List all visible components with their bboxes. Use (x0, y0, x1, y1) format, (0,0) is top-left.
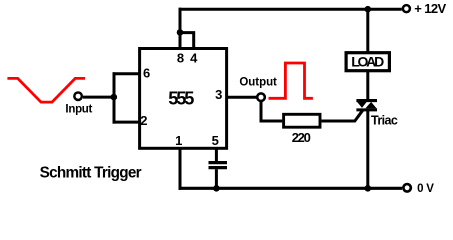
svg-text:5: 5 (212, 133, 219, 148)
triac right triangle (pointing up) (365, 102, 376, 109)
node pin8/pin4 junction (177, 29, 184, 36)
capacitor C1 top plate (209, 161, 228, 164)
node capacitor / rail junction (213, 185, 220, 192)
terminal Output circle (257, 93, 265, 101)
triac bottom bar (MT1) (356, 108, 377, 111)
node input junction (111, 94, 118, 101)
svg-text:6: 6 (143, 65, 150, 80)
wire +12V top rail (179, 8, 402, 11)
svg-text:2: 2 (140, 113, 147, 128)
svg-text:Input: Input (65, 104, 92, 116)
svg-text:555: 555 (168, 88, 194, 108)
wire resistor to triac gate (322, 110, 363, 121)
svg-text:Output: Output (239, 76, 277, 88)
node top rail / load branch junction (365, 6, 372, 13)
terminal 0V circle (403, 184, 411, 192)
wire rail to LOAD (366, 9, 369, 53)
wire pin 8 riser to +12V rail (179, 8, 182, 49)
wire pin 5 drop to capacitor (215, 148, 218, 161)
wire pin6-pin2 connector vertical (113, 72, 116, 123)
timer IC U1 555 box (140, 49, 227, 149)
wire pin 6 stub (113, 72, 140, 75)
triac left triangle (pointing down) (357, 102, 366, 108)
svg-text:8: 8 (177, 50, 184, 65)
svg-text:Triac: Triac (371, 113, 398, 127)
svg-text:3: 3 (215, 87, 222, 102)
input waveform (red trapezoid) (7, 78, 85, 102)
wire pin 2 stub (113, 121, 140, 124)
resistor R1 220 box (284, 114, 320, 127)
triac Q1 top bar (MT2) (356, 99, 377, 102)
wire output drop to resistor (261, 102, 282, 122)
svg-text:LOAD: LOAD (351, 54, 384, 70)
wire 0V bottom rail (179, 187, 403, 190)
load box (346, 53, 389, 71)
node triac / rail junction (365, 185, 372, 192)
capacitor C1 bottom plate (209, 166, 228, 169)
wire LOAD to triac (366, 72, 369, 102)
svg-text:Schmitt Trigger: Schmitt Trigger (40, 164, 142, 181)
wire triac to 0V rail (366, 110, 369, 188)
terminal +12V circle (403, 5, 410, 12)
wire pin 4 loop (180, 33, 194, 49)
svg-text:4: 4 (190, 50, 198, 65)
output pulse waveform (red) (269, 63, 313, 98)
wire pin 3 stub (228, 96, 257, 99)
svg-text:1: 1 (175, 133, 182, 148)
wire capacitor to 0V rail (215, 169, 218, 188)
svg-text:+ 12V: + 12V (414, 1, 446, 16)
svg-text:220: 220 (292, 130, 311, 145)
wire pin 1 drop (179, 148, 182, 190)
terminal Input circle (74, 92, 82, 100)
svg-text:0 V: 0 V (417, 183, 434, 195)
wire input to junction (83, 96, 114, 99)
